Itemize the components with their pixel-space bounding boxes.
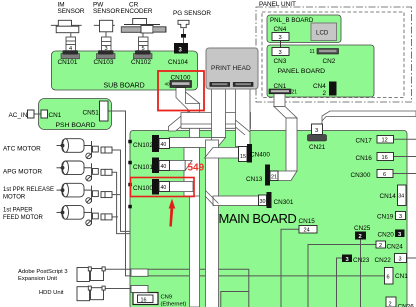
svg-text:3: 3 [399, 257, 402, 263]
connector main CN102 [152, 135, 159, 152]
svg-text:CN23: CN23 [353, 257, 370, 264]
connector CN300 [377, 170, 393, 178]
svg-text:16: 16 [382, 155, 388, 161]
svg-text:PNL_B BOARD: PNL_B BOARD [270, 17, 314, 24]
connector CN14 [398, 185, 407, 206]
svg-text:CN17: CN17 [356, 138, 373, 145]
connector CN1 main [385, 268, 394, 285]
cable CN21 up and right to edge [314, 111, 416, 124]
connector stack CN101 [66, 37, 76, 51]
svg-text:PANEL UNIT: PANEL UNIT [259, 1, 296, 8]
connector CN1 PSH [41, 110, 48, 118]
svg-text:2: 2 [359, 234, 362, 240]
svg-text:40: 40 [165, 82, 171, 87]
svg-text:6: 6 [387, 275, 390, 281]
connector stack CN103 [102, 37, 112, 51]
AC inlet box [28, 110, 35, 118]
sub board [52, 51, 198, 90]
svg-text:CN101: CN101 [133, 164, 153, 171]
ribbon to CN301 horizontal [213, 196, 259, 206]
svg-text:CN3: CN3 [274, 58, 287, 65]
svg-text:CN104: CN104 [168, 59, 188, 66]
svg-text:LCD: LCD [316, 30, 329, 37]
wire stub bottom joining [221, 292, 249, 307]
connector CN19 [396, 212, 406, 220]
wire CN23 [337, 258, 343, 307]
svg-text:AC_IN: AC_IN [9, 112, 28, 119]
print head connector right [233, 82, 254, 87]
connector CN23 black [342, 255, 352, 263]
ribbon main CN101 horizontal [169, 161, 185, 171]
svg-text:CN102: CN102 [131, 59, 151, 66]
wire CN15 [281, 229, 299, 307]
wire PW sensor stem [105, 31, 107, 37]
wire CR encoder stem [142, 29, 144, 38]
svg-text:PG SENSOR: PG SENSOR [173, 10, 211, 17]
svg-text:16: 16 [141, 298, 147, 304]
ribbon to CN400 horizontal [205, 148, 239, 159]
svg-text:CN21: CN21 [309, 144, 326, 151]
connector CN21 [312, 124, 323, 135]
wire CN22 [407, 257, 416, 259]
connector CN26 bottom cut [386, 297, 396, 307]
svg-text:MOTOR: MOTOR [3, 195, 26, 201]
svg-text:CN15: CN15 [299, 218, 316, 225]
edge slot for HDD wire [131, 286, 148, 293]
connector CN15 [299, 226, 317, 234]
svg-text:CN2: CN2 [323, 58, 336, 65]
connector CN104 black box [174, 43, 188, 54]
svg-text:CN22: CN22 [375, 257, 392, 264]
LCD [311, 23, 337, 41]
svg-text:11: 11 [310, 49, 315, 55]
svg-text:21: 21 [292, 89, 298, 95]
red highlight box main CN100 [131, 178, 195, 197]
HDD unit connector icons [77, 286, 105, 301]
wire CN25 [360, 240, 362, 307]
connector CN301 [259, 195, 267, 206]
connector CN400 [239, 147, 248, 162]
connector pnl CN1 bar [269, 89, 291, 94]
svg-text:CN4: CN4 [313, 83, 326, 90]
ribbon to main CN102 horizontal [169, 138, 217, 148]
svg-text:15: 15 [240, 154, 246, 160]
connector CN20 black [395, 230, 405, 238]
svg-text:Adobe PostScript 3: Adobe PostScript 3 [18, 269, 68, 275]
svg-text:CN400: CN400 [250, 151, 270, 158]
svg-text:24: 24 [304, 228, 310, 234]
svg-text:CN100: CN100 [133, 185, 153, 192]
ribbon print head right vertical [236, 87, 251, 147]
ribbon horizontal band across (fold) [181, 113, 251, 129]
svg-text:APG MOTOR: APG MOTOR [3, 169, 42, 176]
svg-text:3: 3 [279, 50, 282, 56]
svg-text:2: 2 [389, 302, 392, 307]
red arrow [169, 199, 176, 227]
connector CN16 [377, 153, 394, 161]
svg-text:FEED MOTOR: FEED MOTOR [3, 215, 44, 221]
svg-text:3: 3 [279, 35, 282, 41]
svg-text:HDD Unit: HDD Unit [39, 290, 64, 296]
svg-text:40: 40 [161, 185, 167, 191]
svg-text:CN100: CN100 [171, 75, 191, 82]
svg-text:ENCODER: ENCODER [121, 8, 153, 15]
svg-text:(Ethernet): (Ethernet) [161, 301, 187, 307]
svg-text:2: 2 [323, 90, 327, 97]
svg-text:CN20: CN20 [378, 231, 395, 238]
svg-text:SUB BOARD: SUB BOARD [104, 83, 145, 90]
wire Adobe continuation across main board [148, 269, 249, 307]
wire CN300 [393, 173, 416, 175]
wire IM sensor stem [70, 30, 72, 37]
svg-text:CN19: CN19 [377, 214, 394, 221]
connector pnl CN3 box [272, 48, 289, 56]
wire ATC motor [112, 150, 131, 231]
connector main CN100 [152, 179, 159, 195]
svg-text:CN300: CN300 [351, 172, 371, 179]
svg-text:34: 34 [398, 194, 404, 200]
connector CN13 [265, 165, 270, 186]
connector stack CN102 sub [139, 37, 149, 51]
motor APG [57, 161, 113, 181]
svg-text:6: 6 [383, 172, 386, 178]
IM sensor icon [51, 20, 82, 32]
wire PG sensor stem [183, 29, 185, 44]
motor ATC [57, 139, 113, 159]
svg-text:CN9: CN9 [161, 295, 173, 301]
connector pnl CN4 black vertical [329, 82, 337, 96]
edge slot for expansion unit wire [131, 269, 148, 276]
svg-text:PSH BOARD: PSH BOARD [56, 122, 96, 129]
connector CN25 black [355, 232, 366, 240]
connector CN22 [395, 254, 407, 263]
svg-text:SENSOR: SENSOR [58, 8, 85, 15]
ribbon central vertical run 2 to bottom [206, 140, 219, 307]
ribbon fold at CN102 band [212, 138, 226, 148]
svg-text:12: 12 [382, 138, 388, 144]
svg-text:CN25: CN25 [354, 225, 371, 232]
connector pnl CN4 box [272, 33, 289, 41]
svg-text:PRINT HEAD: PRINT HEAD [211, 65, 251, 72]
motor edge dots [128, 140, 132, 144]
PG sensor icon [178, 20, 189, 37]
wire CN24 [308, 245, 376, 307]
svg-text:SENSOR: SENSOR [93, 8, 120, 15]
panel board [267, 45, 374, 97]
ribbon cable from sub board CN100 vertical run to bottom [176, 88, 200, 307]
connector CN17 [377, 136, 394, 144]
red highlight box sub CN100 [158, 71, 204, 111]
main board [130, 131, 407, 307]
PNL_B board [267, 15, 341, 43]
ribbon panel CN1 down segment 1 [274, 94, 285, 107]
connector CN24 [376, 241, 386, 248]
ribbon main CN100 horizontal [169, 182, 193, 192]
connector base CN103 [97, 54, 116, 59]
CR encoder icon [121, 19, 166, 34]
svg-text:Expansion Unit: Expansion Unit [18, 276, 57, 282]
connector sub CN100 bar [170, 81, 192, 88]
wire CN16 [394, 156, 416, 158]
wire CN51 to main board CN1 long power wire [108, 111, 385, 276]
panel unit inner dashed border [262, 12, 404, 98]
ribbon print head left vertical [212, 87, 226, 138]
svg-text:CN14: CN14 [380, 193, 397, 200]
ribbon branch down-left to main board connectors [169, 111, 190, 131]
print head [206, 48, 258, 89]
svg-text:40: 40 [161, 164, 167, 170]
svg-text:549: 549 [188, 163, 205, 174]
svg-text:CN301: CN301 [274, 199, 294, 206]
ribbon fold triangle at sub CN100 [186, 92, 200, 104]
svg-text:MAIN BOARD: MAIN BOARD [219, 211, 297, 226]
svg-text:30: 30 [260, 199, 266, 205]
wire 1st paper feed motor [112, 216, 118, 218]
svg-text:CN103: CN103 [94, 59, 114, 66]
svg-text:PANEL BOARD: PANEL BOARD [278, 68, 326, 75]
connector CN9 ethernet [133, 293, 158, 305]
svg-text:3: 3 [399, 214, 402, 220]
svg-text:CN1: CN1 [49, 112, 62, 119]
ribbon panel CN1 vertical run to CN13 [286, 118, 297, 171]
svg-text:1st PAPER: 1st PAPER [3, 208, 33, 214]
PW sensor icon [94, 20, 115, 32]
wire 1st PPK release motor [112, 194, 121, 196]
ribbon widening of run 1 where CN101 and CN100 cables merge [184, 148, 200, 197]
motor 1st paper feed [57, 206, 113, 226]
Adobe unit connector icons [77, 267, 105, 282]
wire HDD unit [105, 288, 132, 290]
svg-text:CN1: CN1 [395, 273, 408, 280]
motor 1st PPK release [57, 183, 113, 203]
connector pnl CN2 bar [317, 49, 339, 55]
svg-text:CN51: CN51 [83, 109, 100, 116]
svg-text:CN16: CN16 [356, 155, 373, 162]
svg-text:CN26: CN26 [398, 304, 415, 307]
connector main CN101 [152, 158, 159, 174]
svg-text:21: 21 [271, 174, 277, 180]
svg-text:2: 2 [379, 243, 382, 249]
svg-text:CN4: CN4 [274, 26, 287, 33]
connector CN51 [100, 101, 109, 121]
ribbon panel CN1 diagonal jog [274, 107, 297, 119]
wire pnl CN4 to CN3 [280, 41, 282, 48]
ribbon fold into CN13 [278, 171, 298, 181]
svg-text:CN101: CN101 [58, 59, 78, 66]
svg-text:CN24: CN24 [387, 243, 404, 250]
wire CN17 [394, 138, 416, 140]
PSH board [39, 99, 112, 130]
svg-text:CN102: CN102 [133, 142, 153, 149]
wire APG motor [112, 172, 131, 233]
svg-text:40: 40 [161, 142, 167, 148]
wire Adobe PostScript unit [105, 268, 131, 270]
print head connector left [210, 82, 231, 87]
svg-text:CN1: CN1 [274, 83, 287, 90]
panel unit outer dash-dot border [256, 7, 412, 102]
svg-text:ATC MOTOR: ATC MOTOR [3, 146, 41, 153]
connector base CN102 sub [134, 54, 153, 59]
svg-text:3: 3 [315, 128, 318, 134]
connector base CN101 [61, 54, 80, 59]
svg-text:1st PPK RELEASE: 1st PPK RELEASE [3, 187, 54, 193]
svg-text:CN13: CN13 [246, 176, 263, 183]
wire AC_IN to CN1 [34, 113, 41, 115]
